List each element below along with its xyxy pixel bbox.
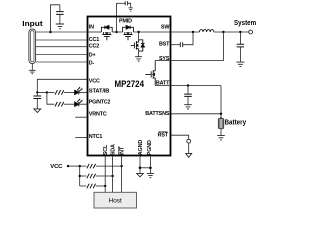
capacitor C_OUT — [237, 44, 244, 47]
wire RST circle to arrow — [188, 143, 190, 153]
svg-text:VCC: VCC — [50, 164, 62, 170]
ground AGND (open triangle) — [137, 173, 144, 177]
wire Q3 to ground — [138, 51, 140, 57]
node BATT cap junction — [187, 84, 189, 86]
svg-text:NTC1: NTC1 — [89, 134, 103, 140]
capacitor C_PMID — [125, 1, 127, 5]
svg-text:Input: Input — [22, 21, 43, 28]
wire C_BST to SW node — [183, 32, 193, 45]
wire PMID riser — [116, 3, 118, 32]
wire SDA column — [112, 156, 114, 192]
wire AGND drop — [139, 156, 141, 168]
svg-text:AGND: AGND — [138, 140, 144, 156]
svg-text:CC2: CC2 — [89, 43, 99, 49]
resistor R_INT — [87, 164, 96, 169]
ground RST (open triangle) — [186, 153, 192, 157]
LED D1 STAT — [75, 87, 83, 95]
wire C_BATT to ground — [187, 96, 189, 104]
battery BT1 — [218, 117, 223, 128]
svg-text:VCC: VCC — [89, 78, 100, 84]
wire C_VCC to ground — [36, 99, 38, 109]
inductor L1 — [199, 30, 213, 32]
node SCL pull-up — [104, 185, 106, 187]
node BST bootstrap junction — [192, 31, 194, 33]
block Host — [94, 192, 137, 208]
svg-text:CC1: CC1 — [89, 37, 99, 43]
wire BATT down to battery — [220, 86, 222, 119]
wire D+ net — [36, 54, 87, 56]
terminal RST (open circle) — [187, 139, 191, 143]
svg-text:RST: RST — [158, 133, 169, 139]
capacitor C_BST — [180, 42, 182, 47]
wire battery to ground — [220, 128, 222, 135]
wire IN to input capacitor — [51, 5, 60, 32]
wire LED2 to PG/NTC2 pin — [79, 103, 87, 105]
wire VCC to C_VCC — [36, 92, 38, 95]
node BATTSNS battery junction — [220, 113, 222, 115]
wire PMID to C_PMID — [117, 2, 125, 4]
svg-text:D-: D- — [89, 60, 95, 66]
wire R_STAT to LED1 — [64, 91, 75, 93]
IC U1 MP2724 body — [88, 17, 171, 156]
wire R_INT to INT column — [96, 165, 122, 167]
wire inductor to System terminal — [214, 31, 249, 33]
transistor Q3 low-side FET — [131, 40, 145, 51]
ground PGND — [147, 173, 154, 177]
svg-text:SCL: SCL — [103, 144, 109, 155]
wire R_SDA to SDA column — [96, 175, 113, 177]
wire C_OUT riser — [239, 32, 241, 44]
svg-text:SW: SW — [161, 25, 170, 31]
resistor R_PG — [55, 102, 64, 107]
wire branch to R_STAT — [47, 91, 55, 93]
wire R_SCL to SCL column — [96, 185, 105, 187]
wire C_BATT riser — [187, 86, 189, 94]
wire C_OUT to ground — [239, 47, 241, 62]
node VCC cap junction — [36, 91, 38, 93]
resistor R_STAT — [55, 90, 64, 95]
wire BST to bootstrap cap — [172, 44, 181, 46]
ground C_BATT — [184, 105, 192, 109]
ground C_PMID — [128, 8, 133, 11]
wire AGND to ground — [139, 168, 141, 174]
ground C_VCC (open triangle) — [34, 109, 41, 113]
wire PMID to Q2 — [112, 31, 122, 33]
ground input shell — [29, 70, 36, 74]
ground C_IN — [56, 24, 64, 29]
svg-text:SYS: SYS — [159, 56, 170, 62]
node SDA pull-up — [111, 175, 113, 177]
wire VRNTC stub — [75, 116, 87, 118]
node rail row2 — [79, 175, 81, 177]
svg-text:VRNTC: VRNTC — [89, 111, 107, 117]
wire SW to Q3 — [138, 32, 140, 40]
capacitor C_VCC — [33, 96, 41, 99]
wire CC2 net — [36, 46, 87, 48]
wire VCC feed to rail — [68, 165, 80, 167]
node PGND — [149, 167, 152, 170]
svg-text:System: System — [234, 20, 256, 27]
wire PGND drop — [149, 156, 151, 168]
wire BATTSNS — [172, 113, 222, 115]
wire INT column — [121, 156, 123, 192]
transistor Q2 input blocking FET — [123, 25, 134, 40]
connector J1 USB input — [29, 29, 36, 64]
node SYS junction — [222, 31, 224, 33]
svg-text:STAT/IB: STAT/IB — [89, 88, 110, 94]
wire Q2 to SW pin — [133, 31, 171, 33]
svg-text:INT: INT — [120, 146, 126, 155]
wire LED1 to STAT/IB pin — [79, 91, 87, 93]
wire CC1 net — [36, 39, 87, 41]
svg-text:Battery: Battery — [225, 119, 247, 126]
wire connector shell to ground — [31, 64, 33, 70]
wire rail to R_INT — [80, 165, 87, 167]
ground battery — [217, 136, 225, 140]
transistor Q4 battery FET — [145, 61, 155, 86]
wire pull-up rail — [79, 166, 81, 186]
svg-text:BATTSNS: BATTSNS — [145, 111, 170, 117]
node AGND — [139, 167, 142, 170]
wire branch down to PG row — [47, 92, 55, 104]
ground C_OUT — [236, 62, 244, 66]
capacitor C_IN — [56, 12, 64, 15]
wire rail to R_SDA — [80, 175, 87, 177]
wire IN internal to Q1 — [87, 31, 101, 33]
svg-text:MP2724: MP2724 — [115, 79, 145, 89]
svg-text:D+: D+ — [89, 52, 96, 58]
svg-text:PMID: PMID — [119, 18, 132, 24]
wire IN net — [36, 31, 87, 33]
wire RST external — [172, 135, 189, 139]
svg-text:Host: Host — [109, 198, 122, 205]
resistor R_SCL — [87, 184, 96, 189]
node SW low-side FET junction — [137, 31, 139, 33]
wire D- net — [36, 61, 87, 63]
wire BATT internal and external — [155, 85, 221, 87]
transistor Q1 input blocking FET — [101, 25, 112, 40]
wire rail to R_SCL — [80, 185, 87, 187]
node VCC feed — [67, 165, 69, 167]
svg-text:IN: IN — [89, 24, 94, 30]
wire SCL column — [104, 156, 106, 192]
wire R_PG to LED2 — [64, 103, 75, 105]
ground Q3 — [135, 57, 142, 61]
terminal System (open circle) — [249, 30, 253, 34]
wire NTC1 stub — [75, 137, 87, 139]
wire C_PMID to ground — [128, 3, 131, 8]
node STAT/PG branch — [46, 91, 48, 93]
wire VCC to branch node — [37, 91, 47, 93]
wire PGND to ground — [149, 168, 151, 174]
capacitor C_BATT — [184, 94, 192, 96]
svg-text:BST: BST — [159, 42, 170, 48]
node output cap junction — [239, 31, 241, 33]
node INT pull-up — [120, 165, 122, 167]
LED D2 PG — [75, 98, 83, 106]
wire AGND-PGND tie — [140, 167, 150, 169]
svg-text:SDA: SDA — [111, 144, 117, 155]
node rail row1 — [79, 165, 81, 167]
node IN cap junction — [49, 31, 51, 33]
resistor R_SDA — [87, 174, 96, 179]
svg-text:PGND: PGND — [147, 140, 153, 155]
wire SW to inductor — [172, 31, 200, 33]
wire SYS internal and external — [155, 32, 223, 61]
svg-text:PG/NTC2: PG/NTC2 — [89, 100, 111, 106]
node PMID — [115, 31, 117, 33]
wire C_IN to ground — [59, 14, 61, 24]
wire VCC pin — [37, 79, 87, 92]
